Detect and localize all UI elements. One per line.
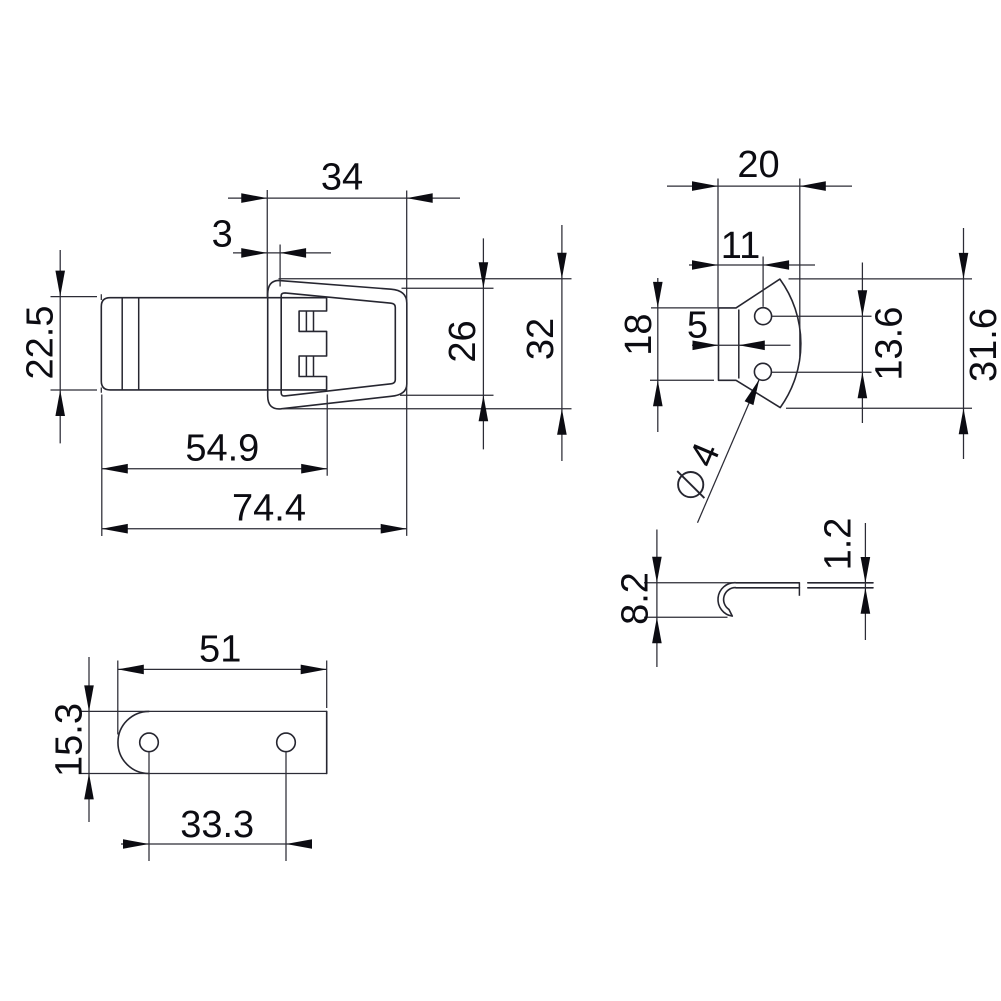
svg-text:51: 51 [199, 628, 241, 670]
svg-text:20: 20 [737, 144, 779, 186]
svg-text:54.9: 54.9 [185, 427, 259, 469]
svg-text:15.3: 15.3 [48, 703, 90, 777]
svg-text:1.2: 1.2 [817, 518, 859, 571]
svg-text:74.4: 74.4 [232, 487, 306, 529]
svg-text:34: 34 [321, 157, 363, 199]
svg-text:11: 11 [721, 225, 760, 267]
svg-text:8.2: 8.2 [614, 572, 656, 625]
svg-text:31.6: 31.6 [963, 308, 1001, 382]
svg-text:32: 32 [520, 318, 562, 360]
svg-text:33.3: 33.3 [180, 804, 254, 846]
svg-text:26: 26 [442, 320, 484, 362]
svg-text:3: 3 [212, 213, 233, 255]
svg-text:22.5: 22.5 [20, 306, 62, 380]
svg-text:5: 5 [687, 304, 708, 346]
svg-text:4: 4 [682, 437, 729, 473]
svg-text:13.6: 13.6 [869, 307, 911, 381]
svg-text:18: 18 [618, 313, 660, 355]
